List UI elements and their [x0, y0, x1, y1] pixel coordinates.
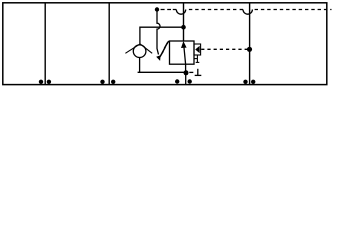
wire: vertical bus line 3: [249, 3, 251, 85]
node: terminal dots of bus 3: [243, 80, 247, 84]
wire: regulator outlet: [185, 64, 187, 72]
vent symbol (exhaust to atmosphere): [197, 69, 199, 75]
wire: pilot drop line to spring with hop-over: [157, 11, 160, 55]
check valve seat: [125, 44, 152, 53]
pilot triangle (hydraulic pilot): [195, 46, 200, 54]
wire: vertical bus line 2: [108, 3, 110, 85]
wire: check valve outlet stem: [139, 58, 141, 73]
frame border: [3, 3, 327, 85]
node: terminal dots of bus 2: [100, 80, 104, 84]
vent line from valve side: [194, 58, 197, 60]
vent crossbar (small): [196, 61, 200, 63]
node: downstream junction: [184, 70, 189, 75]
node: terminal dots at downstream drop: [175, 79, 179, 83]
node: pilot take-off junction: [155, 7, 159, 11]
node: terminal dots of bus 1: [39, 80, 43, 84]
pilot drain dash: [189, 71, 193, 73]
pilot line X (dashed, top) with hop-overs: [161, 10, 332, 15]
spring of regulator: [160, 41, 169, 57]
node: pilot junction on bus 3: [247, 47, 252, 52]
vent stub from pilot box: [196, 55, 198, 62]
wire: downstream line: [138, 71, 186, 73]
check valve ball: [133, 45, 146, 58]
flow arrow inside valve: [184, 48, 186, 65]
arrowhead of pilot drop line: [156, 55, 160, 61]
wire: vertical bus line 1: [44, 3, 46, 85]
wire: supply line into valve P: [183, 4, 185, 42]
node: branch junction on supply line: [181, 25, 186, 30]
pressure regulator valve body V1: [170, 41, 195, 64]
pilot actuator box on valve: [194, 44, 201, 55]
wire: bypass branch line: [140, 27, 184, 45]
wire: drop to bottom bus: [185, 73, 187, 84]
pilot line Y (dashed, middle): [201, 48, 248, 50]
